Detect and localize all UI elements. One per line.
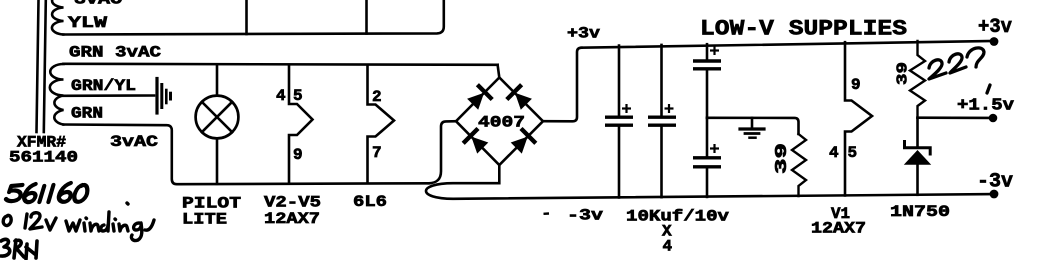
svg-text:V2-V5: V2-V5 — [264, 194, 321, 212]
pilot lamp DS1 circle — [196, 96, 239, 139]
capacitor C2 bottom wire — [660, 127, 663, 197]
bridge diode D3 cathode bar — [507, 85, 522, 100]
stray dash before -3v — [544, 212, 550, 215]
transformer T1 primary-side winding W1 (upper) — [52, 0, 64, 35]
bridge diode D5 cathode bar — [521, 129, 536, 144]
capacitor C1 polarity plus — [622, 104, 631, 113]
bridge diode D4 (bottom-left) triangle — [471, 137, 488, 154]
handwritten 22? near R2 — [929, 48, 990, 93]
pilot lamp DS1 X diagonal 1 — [202, 102, 232, 132]
wire top heater rail GRN 3vAC from winding to bridge — [64, 64, 498, 65]
svg-text:7: 7 — [372, 144, 382, 162]
svg-text:9: 9 — [851, 76, 861, 94]
pilot lamp DS1 X diagonal 2 — [202, 102, 232, 132]
svg-text:2: 2 — [372, 88, 382, 106]
transformer T1 core line 2 — [44, 0, 46, 132]
terminal node +3v dot — [990, 37, 999, 46]
svg-text:+3v: +3v — [567, 25, 600, 43]
bridge diode D4 cathode bar — [463, 129, 478, 144]
svg-text:GRN: GRN — [71, 105, 103, 123]
capacitor C1 plates — [605, 117, 633, 125]
svg-text:39: 39 — [895, 62, 912, 85]
zener diode D1 anode wire to -3v rail — [916, 165, 919, 195]
capacitor C1 top wire — [618, 46, 621, 115]
capacitor C2 plates — [648, 117, 676, 125]
wire second vertical stub at top — [365, 0, 368, 34]
handwritten o 12v winding — [3, 203, 154, 241]
heater V1 12AX7 filament symbol — [845, 42, 872, 195]
svg-text:39: 39 — [773, 143, 792, 174]
ground G1 bar 3 — [165, 90, 168, 103]
capacitor C4 polarity plus — [710, 144, 719, 153]
svg-text:1N750: 1N750 — [890, 203, 950, 221]
capacitor C4 bottom wire to -3v rail — [706, 169, 709, 197]
capacitor C3 (series top) wire from +3v rail — [706, 44, 709, 58]
heater V2-V5 12AX7 filament symbol — [289, 65, 313, 183]
svg-text:GRN 3vAC: GRN 3vAC — [69, 44, 161, 62]
transformer T1 winding W2 (lower, center-tapped) — [50, 64, 64, 125]
bridge diode D2 cathode bar — [477, 85, 492, 100]
svg-text:GRN/YL: GRN/YL — [71, 77, 136, 95]
bridge rectifier BR1 diamond outline — [456, 78, 543, 166]
capacitor C3 polarity plus — [710, 46, 719, 55]
svg-text:12AX7: 12AX7 — [811, 220, 866, 238]
ground G2 stub — [751, 118, 754, 127]
capacitor C2 top wire — [660, 45, 663, 115]
zener diode D1 triangle — [904, 150, 931, 165]
wire GRN/YL center tap to ground — [64, 94, 155, 97]
ground G2 bar 2 — [745, 132, 759, 135]
capacitor C4 (series bottom) wire from midpoint — [706, 118, 709, 156]
svg-text:-3v: -3v — [567, 207, 603, 225]
capacitor C3 plates — [693, 61, 721, 69]
transformer T1 core line 1 — [37, 0, 39, 132]
svg-text:561140: 561140 — [9, 149, 78, 167]
handwritten BRN — [1, 239, 37, 259]
wire +3v top rail — [582, 41, 994, 48]
wire YLW winding1 bottom lead going right then up — [63, 0, 444, 35]
bridge diode D2 (top-left) triangle — [467, 93, 484, 110]
svg-text:5: 5 — [848, 144, 858, 162]
svg-text:YLW: YLW — [68, 14, 108, 32]
terminal node +1.5v dot — [989, 114, 998, 123]
svg-text:6L6: 6L6 — [353, 193, 387, 211]
wire vertical stub at top (cut off circuit above) — [245, 0, 248, 34]
svg-text:5: 5 — [293, 87, 303, 105]
wire +1.5v output line — [918, 116, 992, 119]
ground G1 (chassis, sideways) bar 1 — [155, 79, 158, 114]
svg-text:+1.5v: +1.5v — [957, 97, 1014, 116]
ground G2 bar 3 — [750, 136, 756, 139]
wire GRN winding bottom lead, down and right along heater bottom rail — [63, 125, 429, 185]
bridge diode D3 (top-right) triangle — [515, 93, 532, 110]
svg-text:3vAC: 3vAC — [74, 0, 122, 8]
resistor R1 39 ohm zigzag — [792, 134, 806, 196]
wire bridge right vertex to +3v rail corner — [543, 48, 582, 122]
wire bridge bottom vertex down, U-turn, -3v bottom rail — [426, 165, 994, 199]
zener diode D1 1N750 top wire — [916, 118, 919, 146]
capacitor C3 to midpoint wire — [706, 71, 709, 118]
wire cap midpoint junction to resistor R1 — [707, 118, 799, 134]
svg-text:10Kuf/10v: 10Kuf/10v — [626, 208, 729, 226]
ground G1 bar 2 — [160, 85, 163, 108]
ground G2 bar 1 — [740, 127, 764, 130]
svg-text:-3v: -3v — [977, 171, 1013, 194]
svg-text:4: 4 — [829, 144, 839, 162]
svg-text:+3v: +3v — [978, 16, 1012, 39]
svg-text:3vAC: 3vAC — [110, 133, 158, 151]
capacitor C4 plates — [693, 158, 721, 167]
svg-text:LITE: LITE — [182, 211, 227, 229]
wire bridge top connection — [498, 65, 500, 78]
wire heater rail corner up to bridge left vertex — [429, 121, 457, 183]
svg-text:4: 4 — [663, 238, 673, 256]
zener diode D1 cathode bar with bent ends — [905, 142, 931, 155]
pilot lamp DS1 bottom wire — [216, 138, 219, 183]
bridge diode D5 (bottom-right) triangle — [511, 137, 528, 154]
handwritten 561160 — [5, 183, 88, 202]
resistor R2 39 ohm zigzag from +3v rail — [910, 41, 925, 118]
capacitor C2 polarity plus — [665, 104, 674, 113]
svg-text:4: 4 — [276, 87, 286, 105]
capacitor C1 bottom wire — [618, 127, 621, 197]
pilot lamp DS1 top wire — [216, 64, 219, 95]
svg-text:4007: 4007 — [478, 114, 525, 132]
heater 6L6 filament symbol — [368, 65, 395, 183]
svg-text:LOW-V SUPPLIES: LOW-V SUPPLIES — [700, 17, 907, 42]
svg-text:9: 9 — [293, 146, 303, 164]
svg-text:12AX7: 12AX7 — [264, 210, 320, 228]
terminal node -3v dot — [990, 190, 999, 199]
ground G1 bar 4 (dot) — [169, 93, 172, 99]
